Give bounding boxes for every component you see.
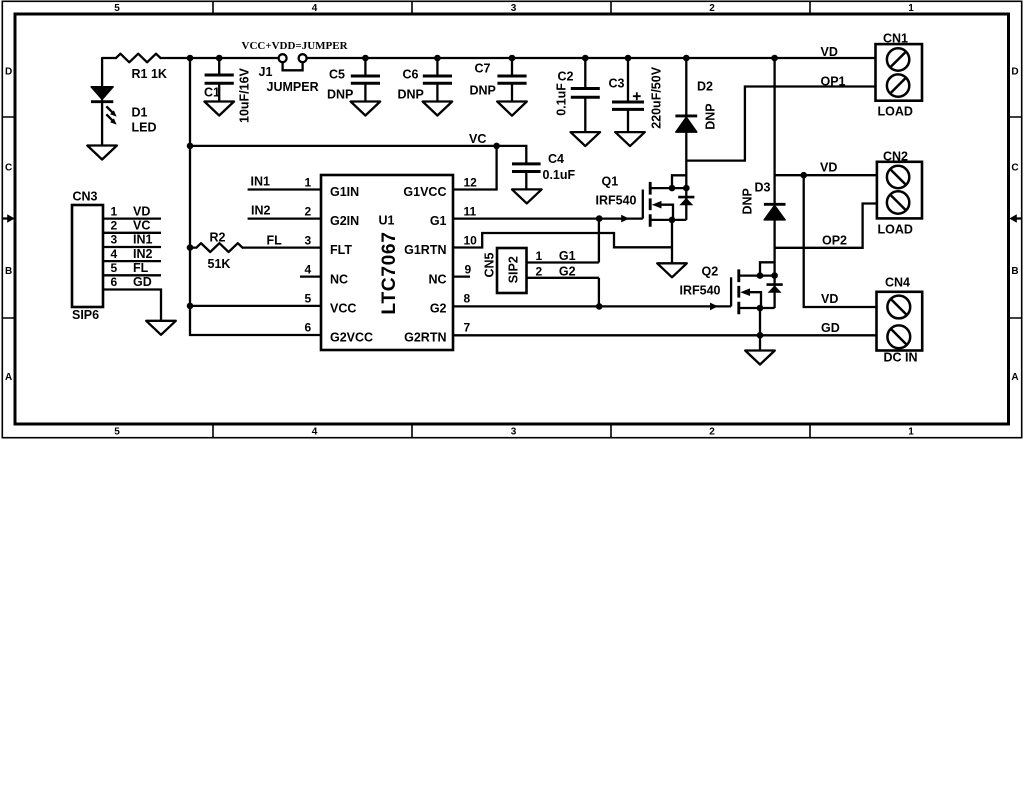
wire FL to U1 pin3 — [242, 246, 321, 248]
svg-text:J1: J1 — [259, 65, 273, 79]
svg-text:SIP6: SIP6 — [72, 308, 99, 322]
svg-text:D2: D2 — [697, 80, 713, 94]
wire CN3 pin6 GD to ground — [103, 290, 161, 321]
wire VD riser to CN4 pin1 — [804, 175, 877, 307]
resistor R1 — [102, 54, 160, 87]
ground (Q1 source) — [657, 263, 687, 277]
connector CN5 SIP2 — [483, 248, 527, 293]
diode D3 (DNP) — [764, 58, 786, 276]
wire OP1 from drain node to CN1 — [686, 87, 875, 161]
svg-text:C2: C2 — [558, 69, 574, 83]
capacitor C7 — [497, 58, 526, 102]
svg-text:IN1: IN1 — [133, 233, 153, 247]
svg-text:IN2: IN2 — [251, 204, 271, 218]
svg-text:0.1uF: 0.1uF — [555, 83, 569, 116]
svg-text:U1: U1 — [379, 214, 395, 228]
svg-text:D: D — [1011, 67, 1018, 78]
svg-text:CN3: CN3 — [73, 190, 98, 204]
svg-text:3: 3 — [511, 3, 517, 14]
wire CN3 pin1 VD stub — [103, 217, 161, 219]
svg-text:3: 3 — [111, 233, 118, 247]
svg-text:1: 1 — [305, 175, 312, 189]
wire IN1 to U1 pin1 — [248, 188, 321, 190]
wire G2 riser (CN5 pin2 to gate wire) — [598, 278, 600, 307]
wire G1 riser (CN5 pin1 to gate wire) — [598, 219, 600, 263]
connector CN4 DC IN — [877, 292, 923, 351]
wire Q1 source to ground / G1RTN — [671, 220, 673, 263]
svg-text:2: 2 — [536, 264, 543, 278]
diode D2 (DNP) — [675, 58, 697, 188]
svg-text:1: 1 — [908, 3, 914, 14]
capacitor C4 — [512, 164, 541, 190]
transistor Q1 IRF540 — [453, 175, 686, 227]
svg-text:G1RTN: G1RTN — [404, 243, 446, 257]
svg-text:1: 1 — [536, 249, 543, 263]
svg-text:10: 10 — [464, 233, 478, 247]
wire IN2 to U1 pin2 — [248, 217, 321, 219]
wire CN5 pin1 to G1 — [527, 261, 599, 263]
svg-text:DNP: DNP — [704, 103, 718, 129]
svg-text:B: B — [5, 266, 12, 277]
svg-text:A: A — [5, 372, 12, 383]
svg-text:R1 1K: R1 1K — [132, 67, 167, 81]
ground (CN3 pin6) — [146, 321, 176, 335]
svg-text:LTC7067: LTC7067 — [379, 231, 400, 314]
svg-text:G2: G2 — [559, 264, 576, 278]
wire CN3 pin5 FL stub — [103, 274, 161, 276]
capacitor C5 — [351, 58, 380, 102]
svg-text:G1: G1 — [559, 249, 576, 263]
svg-text:IRF540: IRF540 — [596, 194, 637, 208]
svg-text:VD: VD — [821, 292, 838, 306]
svg-text:4: 4 — [312, 3, 318, 14]
svg-text:2: 2 — [305, 204, 312, 218]
svg-text:G1VCC: G1VCC — [403, 185, 446, 199]
capacitor C3 (polarized) — [612, 58, 644, 132]
wire CN3 pin2 VC stub — [103, 232, 161, 234]
svg-text:DC IN: DC IN — [884, 351, 918, 365]
svg-text:Q1: Q1 — [602, 175, 619, 189]
wire Q2 source to ground — [759, 308, 761, 351]
svg-text:VD: VD — [133, 204, 150, 218]
svg-text:DNP: DNP — [398, 87, 424, 101]
ground (C4) — [512, 189, 542, 203]
svg-text:4: 4 — [312, 427, 318, 438]
svg-text:C6: C6 — [403, 67, 419, 81]
wire U1 pin12 G1VCC riser to VC — [453, 146, 497, 190]
svg-text:D: D — [5, 67, 12, 78]
svg-text:IN1: IN1 — [251, 175, 271, 189]
svg-text:LOAD: LOAD — [878, 105, 913, 119]
wire VC rail — [190, 146, 526, 164]
wire CN3 pin3 IN1 stub — [103, 246, 161, 248]
wire GD rail U1 pin7 G2RTN to CN4 pin2 — [453, 334, 877, 336]
wire VDD top rail (right of J1) — [307, 57, 876, 59]
wire U1 pin10 G1RTN to Q1 source — [453, 233, 672, 248]
svg-text:C1: C1 — [204, 86, 220, 100]
wire VD to CN2 pin1 — [775, 174, 877, 176]
wire VCC top rail (left of J1) — [161, 57, 279, 59]
svg-text:51K: 51K — [208, 257, 231, 271]
svg-text:4: 4 — [111, 247, 118, 261]
svg-text:1: 1 — [111, 204, 118, 218]
svg-text:7: 7 — [464, 321, 471, 335]
svg-text:VC: VC — [133, 219, 150, 233]
svg-text:C7: C7 — [475, 62, 491, 76]
svg-text:G2: G2 — [430, 301, 447, 315]
svg-text:JUMPER: JUMPER — [267, 80, 319, 94]
transistor Q2 IRF540 — [453, 262, 775, 314]
svg-text:G2RTN: G2RTN — [404, 330, 446, 344]
svg-text:CN2: CN2 — [883, 150, 908, 164]
svg-text:DNP: DNP — [470, 84, 496, 98]
svg-text:6: 6 — [111, 275, 118, 289]
svg-text:G1: G1 — [430, 214, 447, 228]
svg-text:LOAD: LOAD — [878, 223, 913, 237]
svg-text:5: 5 — [114, 3, 120, 14]
svg-text:FL: FL — [267, 233, 283, 247]
wire U1 pin5 VCC — [190, 305, 321, 307]
junction dots — [187, 55, 807, 339]
ground (C6) — [423, 102, 453, 116]
wire OP2 from Q2 drain node to CN2 pin2 — [775, 204, 877, 248]
svg-text:G2VCC: G2VCC — [330, 330, 373, 344]
svg-text:B: B — [1011, 266, 1018, 277]
svg-text:OP2: OP2 — [822, 233, 847, 247]
capacitor C2 — [571, 58, 600, 132]
ground (C3) — [615, 132, 645, 146]
LED D1 — [91, 87, 117, 146]
ground (C2) — [571, 132, 601, 146]
wire CN5 pin2 to G2 — [527, 277, 599, 279]
svg-text:5: 5 — [111, 261, 118, 275]
svg-text:DNP: DNP — [741, 188, 755, 214]
connector CN2 LOAD — [877, 162, 922, 219]
svg-text:4: 4 — [305, 262, 312, 276]
svg-text:D1: D1 — [132, 105, 148, 119]
wire CN3 pin4 IN2 stub — [103, 260, 161, 262]
svg-text:C: C — [1011, 163, 1018, 174]
svg-text:12: 12 — [464, 175, 478, 189]
svg-text:G1IN: G1IN — [330, 185, 359, 199]
svg-text:NC: NC — [330, 272, 348, 286]
svg-text:CN1: CN1 — [883, 31, 908, 45]
ground (C7) — [497, 102, 527, 116]
svg-text:VCC+VDD=JUMPER: VCC+VDD=JUMPER — [242, 40, 349, 52]
svg-text:IRF540: IRF540 — [680, 284, 721, 298]
svg-text:C: C — [5, 163, 12, 174]
svg-text:Q2: Q2 — [702, 265, 719, 279]
svg-text:11: 11 — [464, 204, 477, 218]
capacitor C1 — [205, 58, 234, 102]
svg-text:FLT: FLT — [330, 243, 352, 257]
svg-text:5: 5 — [114, 427, 120, 438]
svg-text:R2: R2 — [210, 230, 226, 244]
svg-text:5: 5 — [305, 292, 312, 306]
svg-text:2: 2 — [709, 3, 715, 14]
svg-text:A: A — [1011, 372, 1018, 383]
wire U1 pin9 NC stub — [453, 275, 470, 277]
svg-text:CN4: CN4 — [885, 276, 910, 290]
svg-text:2: 2 — [709, 427, 715, 438]
capacitor C6 — [423, 58, 452, 102]
svg-text:SIP2: SIP2 — [507, 256, 521, 283]
svg-text:0.1uF: 0.1uF — [543, 168, 576, 182]
op-amp U1 LTC7067 gate driver IC — [305, 175, 478, 350]
svg-text:6: 6 — [305, 321, 312, 335]
wire U1 pin4 NC stub — [300, 275, 321, 277]
ground (C5) — [351, 102, 381, 116]
ground (Q2 source) — [745, 351, 775, 365]
svg-text:3: 3 — [511, 427, 517, 438]
svg-text:VD: VD — [820, 160, 837, 174]
svg-text:9: 9 — [465, 262, 472, 276]
ground (C1) — [204, 102, 234, 116]
connector CN1 LOAD — [876, 44, 923, 101]
svg-text:D3: D3 — [755, 180, 771, 194]
svg-text:DNP: DNP — [327, 87, 353, 101]
svg-text:C5: C5 — [329, 67, 345, 81]
ground (D1) — [87, 146, 117, 160]
svg-text:FL: FL — [133, 261, 149, 275]
svg-text:1: 1 — [908, 427, 914, 438]
svg-text:IN2: IN2 — [133, 247, 153, 261]
svg-text:C4: C4 — [548, 152, 564, 166]
svg-text:3: 3 — [305, 233, 312, 247]
svg-text:G2IN: G2IN — [330, 214, 359, 228]
svg-text:C3: C3 — [609, 76, 625, 90]
svg-text:10uF/16V: 10uF/16V — [238, 67, 252, 123]
svg-text:VCC: VCC — [330, 301, 356, 315]
svg-text:220uF/50V: 220uF/50V — [650, 66, 664, 129]
svg-text:2: 2 — [111, 219, 118, 233]
wire VCC vertical feed to U1 pins 5,6 — [190, 58, 321, 335]
svg-text:VC: VC — [469, 132, 486, 146]
svg-text:VD: VD — [821, 45, 838, 59]
svg-text:GD: GD — [821, 321, 840, 335]
svg-text:LED: LED — [132, 121, 157, 135]
svg-text:CN5: CN5 — [483, 252, 497, 277]
svg-text:NC: NC — [428, 272, 446, 286]
svg-text:OP1: OP1 — [821, 75, 846, 89]
svg-text:GD: GD — [133, 275, 152, 289]
resistor R2 — [190, 243, 242, 252]
svg-text:8: 8 — [464, 292, 471, 306]
jumper J1 — [279, 54, 307, 70]
connector CN3 SIP6 — [72, 190, 103, 322]
